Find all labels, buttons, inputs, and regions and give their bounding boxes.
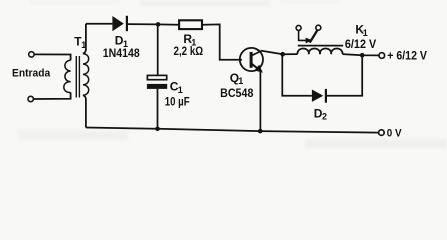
wire: input top terminal to transformer primary — [34, 54, 71, 60]
relay K1 coil — [298, 49, 343, 55]
svg-text:1: 1 — [238, 76, 243, 86]
wire: transformer secondary top lead to top rail — [83, 24, 86, 54]
transistor Q1 body — [240, 48, 263, 71]
junction node emitter/ground rail — [258, 129, 263, 134]
diode D2 — [312, 90, 323, 102]
svg-text:1: 1 — [81, 40, 86, 50]
relay contact fixed lead with arrow — [299, 31, 307, 41]
wire: top rail left (secondary to D1) — [86, 23, 113, 25]
svg-text:BC548: BC548 — [220, 86, 254, 100]
scan ghost noise top — [30, 0, 340, 6]
transistor Q1 base bar — [250, 52, 253, 68]
junction node top (D1/R1/C1) — [156, 22, 161, 27]
wire: coil to output node — [342, 54, 379, 55]
svg-text:6/12 V: 6/12 V — [345, 39, 377, 51]
wire: input bottom terminal to transformer primary — [33, 92, 70, 99]
svg-text:0 V: 0 V — [387, 127, 403, 139]
junction node C1/ground rail — [155, 127, 160, 132]
wire: R1 to transistor base (down and right) — [203, 24, 242, 59]
transistor Q1 collector lead — [252, 51, 263, 56]
capacitor C1 top plate — [147, 75, 166, 79]
relay contact movable blade — [310, 30, 318, 42]
relay contact pole right — [316, 25, 321, 30]
transformer T1 secondary winding — [83, 54, 89, 96]
wire: emitter down to bottom rail — [259, 72, 261, 132]
wire: transformer secondary bottom lead — [83, 95, 86, 127]
relay K1 frame line — [298, 45, 343, 47]
relay contact pole left — [296, 25, 301, 30]
capacitor C1 bottom plate — [147, 84, 167, 89]
wire: collector to relay node — [262, 51, 283, 55]
svg-text:2: 2 — [322, 112, 327, 122]
svg-text:1: 1 — [178, 85, 183, 95]
transformer T1 core — [75, 56, 77, 98]
svg-text:Entrada: Entrada — [12, 67, 50, 79]
wire: C1 branch from top node down — [157, 24, 159, 75]
wire: D1 cathode to junction node — [128, 23, 158, 25]
svg-text:2,2 kΩ: 2,2 kΩ — [174, 44, 204, 58]
transistor Q1 emitter lead with arrow — [252, 64, 258, 69]
wire: D2 loop left vertical — [282, 54, 312, 95]
transformer T1 primary winding — [64, 60, 71, 92]
svg-text:1N4148: 1N4148 — [103, 46, 140, 60]
input terminal bottom — [28, 96, 33, 101]
svg-text:+ 6/12 V: + 6/12 V — [387, 49, 427, 63]
output terminal 0V — [379, 130, 385, 136]
svg-text:10 µF: 10 µF — [165, 96, 190, 108]
diode D1 — [112, 16, 123, 31]
wire: relay node to coil — [283, 53, 298, 55]
wire: node to R1 — [158, 23, 178, 25]
junction node output (+) — [360, 53, 365, 58]
output terminal +6/12V — [379, 53, 385, 59]
scan ghost noise bottom — [18, 130, 447, 148]
svg-text:1: 1 — [363, 28, 368, 38]
wire: bottom rail — [86, 128, 379, 133]
junction node collector/relay/D2 — [280, 52, 285, 57]
wire: D2 loop bottom right segment — [327, 55, 362, 95]
wire: C1 bottom to ground rail — [157, 89, 159, 129]
input terminal top — [29, 52, 34, 57]
resistor R1 — [179, 20, 202, 29]
